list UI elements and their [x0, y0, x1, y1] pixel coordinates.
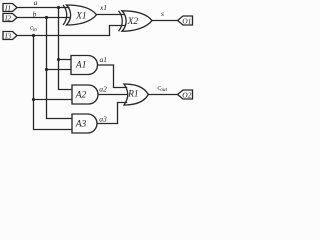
svg-text:I3: I3 — [4, 32, 11, 41]
wire a to A1 top input — [59, 59, 72, 61]
wire s — [152, 20, 178, 22]
or gate R1 — [124, 84, 148, 105]
wire c_out — [148, 94, 177, 96]
junction dot on wire c_in — [32, 34, 35, 37]
svg-text:a1: a1 — [99, 55, 107, 64]
wire a branch down to A2 top input — [59, 8, 73, 90]
svg-text:a2: a2 — [99, 85, 107, 94]
junction dot on b branch at A1 — [45, 68, 48, 71]
input port I3 — [3, 32, 17, 41]
and gate A2 — [72, 85, 98, 104]
and gate A3 — [72, 114, 97, 133]
wire c_in to A2 bottom input — [34, 99, 73, 101]
wire a1 to R1 top input — [98, 65, 128, 88]
input port I1 — [3, 4, 17, 13]
svg-text:b: b — [33, 10, 37, 19]
and gate A1 — [71, 56, 98, 75]
svg-text:X2: X2 — [127, 17, 139, 27]
svg-text:A1: A1 — [75, 61, 87, 71]
xor gate X1 — [63, 5, 97, 25]
svg-text:I2: I2 — [4, 14, 11, 23]
output port O1 — [178, 16, 193, 26]
svg-text:in: in — [33, 27, 37, 33]
svg-text:I1: I1 — [4, 4, 11, 13]
svg-text:out: out — [160, 87, 167, 93]
svg-text:O2: O2 — [182, 91, 191, 100]
wire a2 to R1 middle input — [98, 94, 128, 96]
svg-text:A3: A3 — [75, 120, 87, 130]
junction dot on wire a — [57, 6, 60, 9]
wire x1 — [97, 14, 126, 16]
wire c_in to X2 — [17, 26, 126, 36]
junction dot on c_in branch at A2 — [32, 98, 35, 101]
svg-text:X1: X1 — [75, 11, 87, 21]
junction dot on wire b — [45, 16, 48, 19]
svg-text:A2: A2 — [75, 91, 87, 101]
wire a3 to R1 bottom input — [97, 103, 127, 124]
svg-text:O1: O1 — [182, 17, 191, 26]
input port I2 — [3, 14, 17, 23]
output port O2 — [178, 90, 193, 100]
wire b — [17, 17, 71, 19]
wire c_in branch down to A3 bottom input — [34, 36, 73, 130]
svg-text:R1: R1 — [127, 90, 139, 100]
wire a — [17, 7, 70, 9]
junction dot on a branch at A1 — [57, 58, 60, 61]
svg-text:s: s — [161, 9, 164, 18]
svg-text:a: a — [34, 0, 38, 7]
xor gate X2 — [119, 11, 153, 31]
svg-text:a3: a3 — [99, 114, 107, 123]
wire b to A1 bottom input — [47, 69, 72, 71]
node label c_in — [30, 23, 37, 34]
svg-text:x1: x1 — [99, 3, 107, 12]
wire b branch down to A3 top input — [47, 18, 73, 119]
node label c_out — [157, 83, 167, 94]
